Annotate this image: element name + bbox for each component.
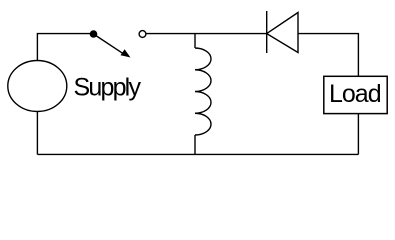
switch SW1 blade arrowhead <box>121 49 131 57</box>
wire left rail bottom <box>36 112 38 155</box>
wire diode to right rail <box>298 34 358 77</box>
wire inductor bottom <box>194 135 196 154</box>
svg-text:Supply: Supply <box>74 74 142 102</box>
supply label <box>74 74 142 102</box>
switch SW1 throw terminal <box>139 31 146 38</box>
wire switch to diode <box>146 33 267 35</box>
svg-text:Load: Load <box>329 80 381 108</box>
wire right rail bottom <box>357 114 359 155</box>
inductor L1 <box>195 48 211 135</box>
diode D1 cathode bar <box>266 11 268 53</box>
diode D1 triangle <box>267 13 298 53</box>
node inductor top junction <box>194 34 196 48</box>
load label <box>329 80 381 108</box>
wire bottom rail <box>37 153 358 155</box>
switch SW1 pole contact <box>90 30 98 38</box>
wire left rail top <box>37 34 93 61</box>
switch SW1 blade <box>94 34 125 54</box>
supply source V1 <box>8 61 67 112</box>
load box <box>324 76 387 113</box>
